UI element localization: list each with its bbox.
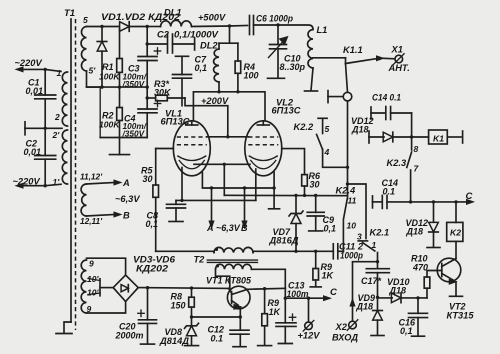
switch K2.3 arm xyxy=(407,152,412,168)
wire C13 line with arrow C xyxy=(285,297,324,299)
VT1 emitter lead xyxy=(239,307,241,330)
switch K2.4 arm xyxy=(343,198,347,220)
svg-text:11: 11 xyxy=(348,196,357,206)
svg-text:Д816Д: Д816Д xyxy=(268,236,299,246)
svg-text:100K: 100K xyxy=(99,120,120,130)
svg-text:Д18: Д18 xyxy=(389,286,407,296)
heater drop B with arrow xyxy=(243,186,246,189)
resistor R5 xyxy=(155,149,157,186)
capacitor C17* xyxy=(377,262,379,269)
wire centre tap to bridge xyxy=(100,287,113,289)
switch K1.1 pivot and arm xyxy=(345,58,347,64)
VL1 cathode lead xyxy=(181,168,183,201)
junction C16 tap xyxy=(416,296,419,299)
switch K2.1 arm xyxy=(363,243,375,252)
svg-text:470: 470 xyxy=(412,263,428,273)
svg-text:10: 10 xyxy=(347,221,357,231)
zener diode VD8 xyxy=(191,317,193,326)
svg-text:КД202: КД202 xyxy=(136,264,168,274)
svg-text:B: B xyxy=(123,211,130,221)
switch K2.3 stub xyxy=(411,137,413,150)
capacitor C9 xyxy=(315,196,317,213)
svg-text:1: 1 xyxy=(57,68,62,78)
relay K2 box xyxy=(455,202,457,223)
diode VD12 lower xyxy=(433,202,435,222)
chassis bar C20 xyxy=(141,343,155,345)
wire winding 9 bottom to bridge xyxy=(87,302,126,314)
tube VL1 control grid dashed xyxy=(177,144,207,146)
svg-text:ВХОД: ВХОД xyxy=(332,333,358,343)
svg-text:1K: 1K xyxy=(322,271,335,281)
svg-text:0,1: 0,1 xyxy=(195,63,208,73)
svg-text:Д18: Д18 xyxy=(356,302,374,312)
T2 top winding right lead xyxy=(251,268,253,270)
chassis bar C9 xyxy=(309,230,323,232)
wire beam plates to grid bus xyxy=(223,164,225,195)
transistor VT2 xyxy=(437,258,461,282)
svg-text:B: B xyxy=(241,223,248,233)
chassis bar VD12 lower xyxy=(427,247,440,249)
svg-text:8..30p: 8..30p xyxy=(280,62,306,72)
svg-text:12,11': 12,11' xyxy=(80,216,103,226)
capacitor C14 upper with chassis bar xyxy=(370,107,372,119)
VL2 grid lead to R6 xyxy=(282,149,305,175)
svg-text:C14 0.1: C14 0.1 xyxy=(372,93,401,103)
wire arm to C17 node xyxy=(377,253,379,262)
svg-text:A: A xyxy=(206,223,214,233)
svg-text:C6 1000p: C6 1000p xyxy=(256,14,293,24)
L1 antenna tap wire xyxy=(313,57,346,59)
tube VL1 cathode arcs xyxy=(178,156,206,161)
zener diode VD7 xyxy=(295,195,297,213)
svg-text:100: 100 xyxy=(244,71,259,81)
wire K2 to VT2 collector xyxy=(455,241,457,258)
arrow C output xyxy=(467,200,474,205)
variable capacitor C10 xyxy=(277,25,279,45)
svg-text:1K: 1K xyxy=(269,307,282,317)
svg-text:5: 5 xyxy=(83,15,88,25)
diode VD9 xyxy=(377,297,379,309)
resistor R9 lower xyxy=(264,289,266,314)
svg-text:K2.3: K2.3 xyxy=(387,158,407,168)
arrow B xyxy=(114,212,121,217)
heater drop A with arrow xyxy=(210,186,213,189)
switch K2.2 contact 5 xyxy=(318,117,327,119)
svg-text:9: 9 xyxy=(89,259,94,269)
junction K1 node xyxy=(410,135,413,138)
svg-text:30K: 30K xyxy=(154,88,172,98)
tube VL2 envelope xyxy=(245,121,282,176)
VL1 grid lead to R5 xyxy=(156,148,174,150)
svg-text:0,01: 0,01 xyxy=(24,147,42,157)
svg-text:X2: X2 xyxy=(335,322,348,332)
mains arrow top xyxy=(16,67,23,72)
junction K2 tap xyxy=(454,200,457,203)
resistor R4 xyxy=(237,43,239,61)
svg-text:K1: K1 xyxy=(433,134,444,144)
svg-text:0,1: 0,1 xyxy=(400,326,413,336)
switch K2.1 contact 3 xyxy=(358,240,367,242)
T2 bottom winding right lead xyxy=(252,269,286,288)
junction +12V tap xyxy=(307,297,310,300)
heater wire between tubes xyxy=(202,173,274,189)
svg-text:КТ315: КТ315 xyxy=(447,311,475,321)
tube VL1 envelope xyxy=(173,121,210,176)
resistor R10 xyxy=(427,271,442,278)
chassis bar R9 upper xyxy=(310,286,321,288)
wire R8 to emitter xyxy=(192,316,241,318)
switch K2.2 arm xyxy=(317,135,323,150)
capacitor C2 mains xyxy=(44,128,46,155)
wire winding 5 to rail xyxy=(87,26,103,28)
wire mains top to winding 1 xyxy=(18,69,61,71)
wire heater B xyxy=(87,215,115,217)
branch to K2.1 xyxy=(348,184,367,239)
junction VD12 lower tap xyxy=(432,200,435,203)
svg-text:K2.1: K2.1 xyxy=(370,228,390,238)
chassis bar R9 lower xyxy=(258,345,272,347)
svg-text:0,1: 0,1 xyxy=(324,224,337,234)
wire winding 5' lead xyxy=(87,71,103,87)
svg-text:150: 150 xyxy=(171,301,186,311)
capacitor C13 electrolytic xyxy=(284,298,286,323)
junction R3 tap xyxy=(146,96,149,99)
svg-text:L1: L1 xyxy=(317,25,328,35)
svg-text:~6,3V: ~6,3V xyxy=(216,223,241,233)
resistor R6 xyxy=(302,175,308,186)
cathode bus wire xyxy=(176,199,256,201)
junction C1 top xyxy=(44,68,47,71)
diode VD1 xyxy=(101,27,103,41)
resistor R3* horizontal xyxy=(147,97,155,99)
capacitor C2 HF with chassis bar xyxy=(146,42,149,45)
wire +200V line xyxy=(185,98,228,137)
svg-text:A: A xyxy=(122,178,130,188)
svg-text:~6,3V: ~6,3V xyxy=(115,194,140,204)
svg-text:K2.4: K2.4 xyxy=(336,186,356,196)
wire HV common R2-C4 xyxy=(100,137,147,139)
wire R5 to T2 primary xyxy=(156,250,214,252)
chassis bar VT2 emitter xyxy=(450,295,463,297)
screen grid tie line with +200V junction xyxy=(207,136,249,138)
junction DL2 tap on rail xyxy=(228,24,231,27)
chassis stub at contact circle xyxy=(327,91,329,103)
tube VL2 cathode arcs xyxy=(249,156,277,161)
svg-text:100m: 100m xyxy=(287,289,309,299)
switch K2.2 contact 4 wire xyxy=(323,150,348,168)
svg-text:R1: R1 xyxy=(102,62,114,72)
chassis drop HV common xyxy=(119,138,121,155)
svg-text:АНТ.: АНТ. xyxy=(388,63,410,73)
transformer T1 LV winding 9-10'-10'-9 xyxy=(81,260,86,313)
junction C10 tap xyxy=(276,23,279,26)
junction line R1-R2 / VD1 / C3-C4 xyxy=(87,86,148,88)
inductor DL2 xyxy=(229,26,231,43)
chassis bar C10 xyxy=(268,77,285,79)
svg-text:K1.1: K1.1 xyxy=(343,45,363,55)
svg-text:11,12': 11,12' xyxy=(80,172,103,182)
junction R8 top xyxy=(190,286,193,289)
svg-text:VT1 КТ805: VT1 КТ805 xyxy=(206,276,252,286)
capacitor C11 xyxy=(332,244,334,259)
svg-text:K2: K2 xyxy=(450,228,461,238)
VL2 heater pin chassis drop xyxy=(273,172,275,208)
svg-text:1: 1 xyxy=(372,240,377,250)
transformer T2 windings xyxy=(214,247,253,252)
svg-text:Д18: Д18 xyxy=(351,125,369,135)
capacitor C12 xyxy=(230,329,249,331)
connector X1 xyxy=(395,55,403,63)
svg-text:100K: 100K xyxy=(99,72,120,82)
svg-text:0.1: 0.1 xyxy=(383,187,396,197)
connector X2 xyxy=(349,321,357,329)
arrow A xyxy=(114,180,121,185)
T2 bottom winding left lead to base xyxy=(216,269,230,288)
capacitor C14 lower with chassis bar xyxy=(372,196,374,208)
svg-text:0,01: 0,01 xyxy=(26,86,44,96)
transformer T1 heater winding 11,12'-12,11' xyxy=(81,184,86,216)
inductor L1 xyxy=(308,30,313,69)
inductor DL1 xyxy=(147,26,160,28)
svg-text:5: 5 xyxy=(325,124,330,134)
T2 polarity dots xyxy=(215,248,218,251)
svg-text:0.1: 0.1 xyxy=(211,334,224,344)
main column wire from contact down xyxy=(347,101,349,196)
LV bus wire xyxy=(138,287,228,290)
wire rail to L1 xyxy=(278,25,313,30)
svg-text:0,1: 0,1 xyxy=(146,219,159,229)
svg-text:10': 10' xyxy=(87,288,99,298)
arrow up on X2 wire xyxy=(350,299,355,306)
svg-text:6П13С: 6П13С xyxy=(161,117,190,127)
junction DL2 bottom xyxy=(217,90,220,93)
capacitor C1 xyxy=(44,69,46,95)
svg-text:3: 3 xyxy=(357,232,362,242)
tube VL2 control grid dashed xyxy=(248,144,278,146)
svg-text:2: 2 xyxy=(54,112,60,122)
chassis bar VD9 xyxy=(371,335,384,337)
svg-text:K2.2: K2.2 xyxy=(294,122,314,132)
svg-text:+200V: +200V xyxy=(201,96,229,106)
switch K1.1 lower contact circle xyxy=(346,64,348,93)
wire winding 9 top to bridge xyxy=(87,258,126,275)
transformer T1 secondary winding 5-5' xyxy=(81,27,86,72)
bridge rectifier VD3-VD6 diamond xyxy=(113,275,138,302)
bridge internal diode xyxy=(121,285,128,292)
svg-text:6П13С: 6П13С xyxy=(272,106,301,116)
junction R6 bottom xyxy=(303,194,306,197)
VL2 cathode lead xyxy=(255,169,257,200)
svg-text:~220V: ~220V xyxy=(15,58,43,68)
T2 to C11 line xyxy=(253,250,333,252)
tube VL2 anode xyxy=(257,124,269,126)
chassis bar mains filter xyxy=(24,122,26,135)
wire heater A xyxy=(87,183,115,185)
transformer T1 primary winding 2'-1' xyxy=(62,130,67,184)
tube VL1 anode xyxy=(186,124,198,126)
wire midpoint to winding taps 2-2' xyxy=(45,127,62,129)
chassis bar C12 xyxy=(233,346,246,348)
beam plate tie line VL1-VL2 xyxy=(194,163,250,165)
wire HV rail winding5 to VD2 xyxy=(102,26,118,28)
svg-text:Д18: Д18 xyxy=(406,227,424,237)
arrow to antenna xyxy=(377,56,384,61)
diode VD2 xyxy=(120,22,130,32)
wire collector node down to C13 line xyxy=(284,288,286,298)
svg-text:8: 8 xyxy=(414,144,419,154)
wire mains bottom to winding 1' xyxy=(18,184,61,185)
diode VD10 xyxy=(378,297,393,299)
junction VD9-VD10 xyxy=(376,296,379,299)
resistor R9 upper xyxy=(315,251,317,268)
diode VD12 upper with chassis bar xyxy=(368,131,370,143)
tube VL1 screen grid dashed xyxy=(177,136,207,138)
resistor R1 with leads xyxy=(119,29,121,59)
junction C3 tap on rail xyxy=(146,25,149,28)
wire C output xyxy=(411,201,467,203)
svg-text:C2: C2 xyxy=(157,30,170,40)
capacitor C4 electrolytic xyxy=(146,87,148,109)
capacitor C7 with top bar xyxy=(176,55,189,57)
capacitor C16 xyxy=(417,298,419,313)
resistor R8 xyxy=(191,288,193,297)
svg-text:5': 5' xyxy=(89,66,97,76)
junction C1-C2 midpoint xyxy=(44,127,47,130)
VT1 collector wire xyxy=(248,288,286,289)
chassis bar C8 xyxy=(169,221,183,223)
chassis bar L1 bottom xyxy=(305,90,318,92)
junction C wire left xyxy=(409,200,412,203)
capacitor C3 electrolytic xyxy=(146,27,148,57)
wire rail to C6 xyxy=(230,25,248,28)
junction C9 top xyxy=(314,194,317,197)
chassis bar VD8 xyxy=(185,345,199,347)
transformer T1 core xyxy=(70,19,72,322)
grid bus wire xyxy=(224,194,347,196)
junction VD1 tap xyxy=(100,25,103,28)
transformer T1 core chassis lead xyxy=(64,322,71,333)
capacitor C8 xyxy=(175,200,177,204)
svg-text:C: C xyxy=(330,287,337,298)
junction C20 tap xyxy=(146,286,149,289)
svg-text:T2: T2 xyxy=(194,255,206,265)
svg-text:X1: X1 xyxy=(391,45,403,55)
chassis bar C13 xyxy=(278,343,292,345)
resistor R2 with leads xyxy=(119,87,121,107)
mains arrow bottom xyxy=(16,183,23,188)
svg-text:30: 30 xyxy=(143,174,153,184)
svg-text:T1: T1 xyxy=(64,8,75,19)
junction VD7 top xyxy=(294,194,297,197)
switch K2.4 contact 10 xyxy=(342,221,344,251)
K1 right chassis bar xyxy=(447,136,461,138)
capacitor C6 xyxy=(249,16,251,35)
svg-text:C17*: C17* xyxy=(361,276,381,286)
LV winding centre tap bar xyxy=(99,279,101,296)
svg-text:DL1: DL1 xyxy=(164,8,182,18)
svg-text:DL2: DL2 xyxy=(200,41,218,51)
anode bus xyxy=(193,92,265,121)
svg-text:+500V: +500V xyxy=(198,13,226,23)
connector +12V xyxy=(305,322,313,330)
svg-text:2000m: 2000m xyxy=(115,331,144,341)
svg-text:30: 30 xyxy=(310,180,320,190)
svg-text:4: 4 xyxy=(324,147,330,157)
wire +12V drop xyxy=(308,298,310,321)
svg-text:/350V: /350V xyxy=(122,79,146,89)
junction main column K2.2 xyxy=(346,166,349,169)
relay K1 box xyxy=(412,136,429,138)
junction R8 bottom xyxy=(190,315,193,318)
junction R4 bottom xyxy=(236,90,239,93)
chassis bar C16 xyxy=(412,335,425,337)
transformer T1 primary winding 1-2 xyxy=(62,72,67,126)
svg-text:C: C xyxy=(466,191,473,202)
wire C14 node down to VD12 xyxy=(411,113,413,137)
tube VL2 screen grid dashed xyxy=(248,136,278,138)
switch K2.3 contact 7 wire xyxy=(410,170,412,202)
svg-text:2': 2' xyxy=(52,130,61,140)
transistor VT1 xyxy=(227,286,250,309)
wire X2 input xyxy=(353,262,378,321)
svg-text:Д814Д: Д814Д xyxy=(159,336,190,346)
svg-text:0,1/1000V: 0,1/1000V xyxy=(174,30,219,40)
capacitor C20 electrolytic xyxy=(147,288,149,320)
svg-text:+12V: +12V xyxy=(298,331,321,341)
